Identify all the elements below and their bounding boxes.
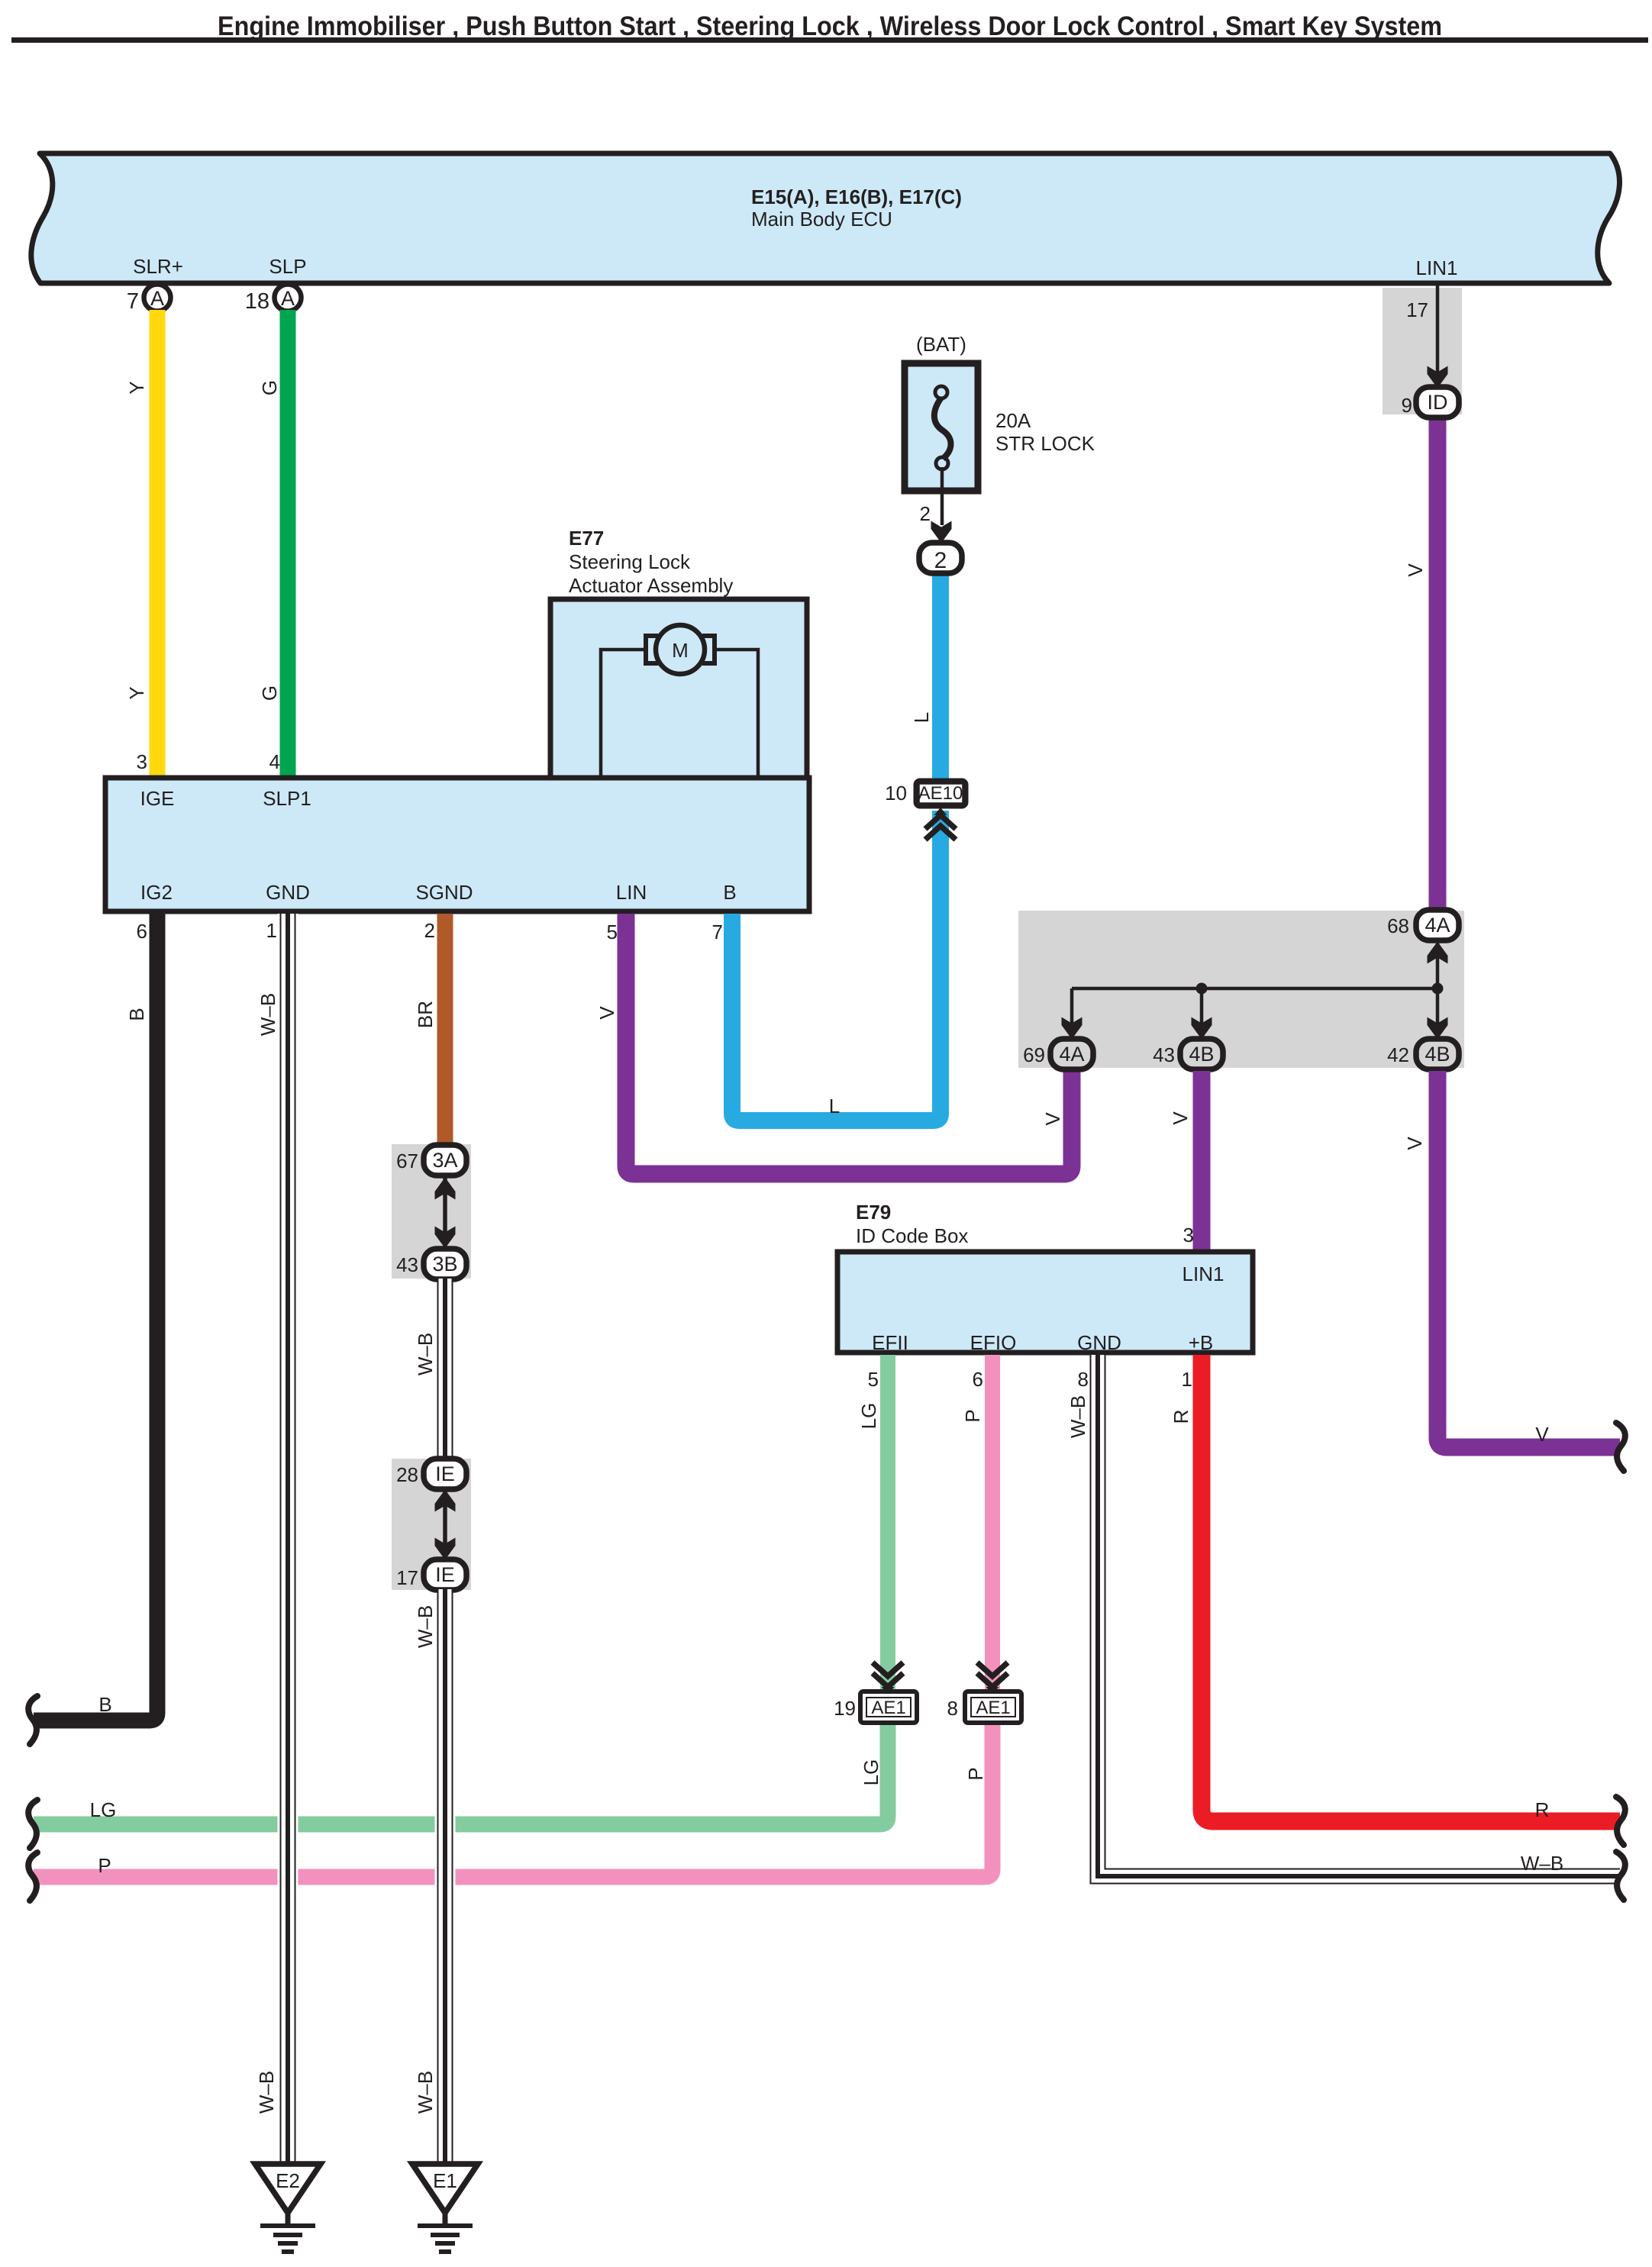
svg-text:P: P bbox=[98, 1854, 111, 1877]
svg-text:4B: 4B bbox=[1425, 1043, 1450, 1066]
ground E2 bbox=[255, 2164, 321, 2252]
svg-text:R: R bbox=[1535, 1798, 1550, 1821]
svg-text:GND: GND bbox=[266, 881, 310, 904]
svg-text:A: A bbox=[150, 287, 164, 310]
svg-text:LG: LG bbox=[857, 1403, 880, 1430]
svg-text:3A: 3A bbox=[432, 1149, 457, 1172]
svg-text:2: 2 bbox=[934, 548, 947, 573]
svg-text:4A: 4A bbox=[1059, 1043, 1084, 1066]
svg-text:Steering Lock: Steering Lock bbox=[569, 550, 691, 573]
svg-text:6: 6 bbox=[973, 1368, 983, 1391]
svg-text:L: L bbox=[910, 712, 933, 723]
svg-text:E79: E79 bbox=[856, 1201, 891, 1224]
svg-text:LIN1: LIN1 bbox=[1183, 1262, 1224, 1285]
svg-text:G: G bbox=[258, 685, 281, 701]
svg-text:42: 42 bbox=[1387, 1043, 1409, 1066]
title rule bbox=[11, 37, 1648, 43]
svg-text:18: 18 bbox=[245, 289, 269, 314]
svg-text:4: 4 bbox=[269, 750, 280, 773]
connector 3A/3B pair bbox=[443, 1160, 447, 1264]
svg-text:IG2: IG2 bbox=[140, 881, 173, 904]
connector AE1 (19) bbox=[873, 1662, 903, 1695]
svg-text:L: L bbox=[829, 1095, 840, 1117]
wire Y (SLR+ to IGE) bbox=[150, 310, 166, 776]
wire P horizontal (lower) bbox=[34, 1723, 992, 1877]
pin circle A (7) bbox=[144, 285, 171, 311]
svg-text:LG: LG bbox=[90, 1798, 117, 1821]
svg-text:LIN1: LIN1 bbox=[1416, 256, 1458, 279]
svg-text:IE: IE bbox=[435, 1563, 455, 1586]
svg-text:ID Code Box: ID Code Box bbox=[856, 1224, 968, 1247]
svg-text:7: 7 bbox=[712, 921, 723, 943]
svg-text:8: 8 bbox=[1078, 1368, 1089, 1391]
svg-text:9: 9 bbox=[1402, 394, 1412, 417]
svg-text:E1: E1 bbox=[433, 2169, 457, 2192]
svg-text:B: B bbox=[723, 881, 736, 904]
wire junction bus horizontal bbox=[1072, 987, 1437, 991]
svg-text:STR LOCK: STR LOCK bbox=[995, 432, 1095, 455]
AE10 double chevron arrows bbox=[925, 808, 956, 840]
svg-text:Y: Y bbox=[125, 381, 148, 394]
svg-text:W–B: W–B bbox=[255, 2071, 278, 2114]
svg-text:AE1: AE1 bbox=[976, 1698, 1010, 1718]
oval 68 4A bbox=[1416, 910, 1459, 940]
svg-text:2: 2 bbox=[920, 502, 931, 525]
wire B (IG2 down left to edge) bbox=[34, 914, 157, 1720]
svg-text:+B: +B bbox=[1189, 1331, 1214, 1354]
wire W-B (17 IE to E1 ground) bbox=[435, 1589, 456, 2166]
svg-text:V: V bbox=[1169, 1111, 1192, 1125]
junction dot (43 branch) bbox=[1196, 983, 1208, 995]
oval 43 4B bbox=[1180, 1039, 1223, 1069]
svg-text:SLP1: SLP1 bbox=[263, 787, 311, 810]
svg-text:4A: 4A bbox=[1425, 914, 1450, 937]
wire R (+B down right to edge) bbox=[1202, 1355, 1620, 1821]
svg-text:7: 7 bbox=[127, 289, 139, 314]
svg-text:10: 10 bbox=[885, 782, 907, 805]
svg-text:28: 28 bbox=[396, 1463, 418, 1486]
svg-text:V: V bbox=[1041, 1112, 1064, 1126]
svg-text:BR: BR bbox=[414, 1001, 437, 1028]
svg-text:W–B: W–B bbox=[1066, 1395, 1089, 1438]
wire W-B (3B to 28 IE) bbox=[437, 1279, 453, 1460]
svg-text:IGE: IGE bbox=[140, 787, 175, 810]
svg-text:E15(A), E16(B), E17(C): E15(A), E16(B), E17(C) bbox=[751, 185, 962, 208]
svg-text:LIN: LIN bbox=[616, 881, 647, 904]
E77 upper box (Steering Lock Actuator Assembly) bbox=[550, 599, 807, 778]
svg-text:E77: E77 bbox=[569, 527, 604, 550]
svg-text:E2: E2 bbox=[276, 2169, 300, 2192]
svg-text:5: 5 bbox=[868, 1368, 879, 1391]
svg-text:4B: 4B bbox=[1189, 1043, 1214, 1066]
wire W-B from E79 GND to right edge bbox=[1098, 1355, 1620, 1876]
wire segment 68 4A to junction with arrow up bbox=[1436, 939, 1440, 988]
gray highlight box IE/IE bbox=[392, 1459, 471, 1590]
svg-text:P: P bbox=[964, 1767, 987, 1780]
connector AE10 bbox=[916, 781, 966, 806]
svg-text:20A: 20A bbox=[995, 409, 1031, 432]
svg-text:G: G bbox=[258, 380, 281, 395]
svg-text:ID: ID bbox=[1428, 391, 1448, 414]
svg-text:8: 8 bbox=[947, 1697, 958, 1720]
connector IE/IE pair bbox=[443, 1474, 447, 1575]
svg-text:V: V bbox=[1403, 1137, 1426, 1150]
svg-text:3B: 3B bbox=[432, 1253, 457, 1275]
wire L (fuse side) bbox=[932, 572, 949, 779]
svg-text:Actuator Assembly: Actuator Assembly bbox=[569, 574, 733, 597]
svg-text:W–B: W–B bbox=[414, 2071, 437, 2114]
svg-text:43: 43 bbox=[396, 1253, 418, 1276]
svg-text:W–B: W–B bbox=[257, 993, 279, 1036]
svg-text:17: 17 bbox=[1406, 298, 1428, 321]
motor M bbox=[656, 625, 705, 674]
svg-text:SLP: SLP bbox=[269, 255, 306, 278]
svg-text:IE: IE bbox=[435, 1462, 455, 1485]
wire G (SLP to SLP1) bbox=[280, 310, 296, 776]
ground E1 bbox=[412, 2164, 478, 2252]
svg-text:W–B: W–B bbox=[414, 1333, 437, 1375]
wire from fuse to connector 2 bbox=[941, 467, 944, 525]
svg-text:Engine Immobiliser , Push Butt: Engine Immobiliser , Push Button Start ,… bbox=[218, 11, 1442, 41]
wire V (43-4B down to E79 LIN1) bbox=[1193, 1071, 1211, 1252]
svg-text:B: B bbox=[98, 1693, 111, 1716]
svg-text:P: P bbox=[961, 1409, 984, 1422]
E79 ID Code Box bbox=[837, 1252, 1253, 1353]
svg-text:1: 1 bbox=[1182, 1368, 1192, 1391]
svg-text:67: 67 bbox=[396, 1150, 418, 1172]
wire V (42-4B down right to edge) bbox=[1437, 1071, 1620, 1447]
pin circle A (18) bbox=[275, 285, 302, 311]
svg-text:M: M bbox=[672, 639, 689, 662]
svg-text:(BAT): (BAT) bbox=[916, 333, 966, 356]
svg-text:68: 68 bbox=[1387, 914, 1409, 937]
svg-text:AE10: AE10 bbox=[918, 783, 963, 804]
svg-text:43: 43 bbox=[1153, 1043, 1175, 1066]
svg-text:A: A bbox=[281, 287, 295, 310]
svg-text:2: 2 bbox=[424, 919, 435, 942]
svg-text:R: R bbox=[1170, 1410, 1192, 1424]
svg-text:B: B bbox=[125, 1008, 148, 1021]
svg-text:SLR+: SLR+ bbox=[133, 255, 183, 278]
gray highlight box 4A/4B junction bbox=[1018, 911, 1464, 1068]
wire V (LIN to 69-4A) bbox=[626, 914, 1072, 1174]
svg-text:6: 6 bbox=[137, 920, 147, 943]
E77 connector strip bbox=[105, 778, 809, 911]
wire P (EFIO to AE1) bbox=[985, 1355, 1000, 1691]
svg-text:Main Body ECU: Main Body ECU bbox=[751, 208, 892, 231]
svg-text:EFIO: EFIO bbox=[970, 1331, 1017, 1354]
svg-text:5: 5 bbox=[607, 921, 618, 943]
svg-text:EFII: EFII bbox=[872, 1331, 908, 1354]
wire V (ID down to 68-4A) bbox=[1429, 416, 1447, 911]
svg-text:SGND: SGND bbox=[415, 881, 473, 904]
svg-text:GND: GND bbox=[1077, 1331, 1121, 1354]
wire W-B (strip GND to E2 ground) bbox=[278, 914, 298, 2166]
svg-text:3: 3 bbox=[1183, 1224, 1194, 1246]
svg-text:3: 3 bbox=[137, 750, 147, 773]
ECU E15/E16/E17 Main Body ECU box bbox=[31, 153, 1620, 283]
svg-text:V: V bbox=[1404, 563, 1427, 577]
svg-text:V: V bbox=[1535, 1423, 1549, 1446]
wire segment down to 43 4B bbox=[1200, 988, 1204, 1040]
wire segment down to 69 4A bbox=[1070, 988, 1074, 1040]
svg-text:1: 1 bbox=[266, 919, 277, 942]
motor wire left bbox=[601, 650, 646, 776]
gray highlight box pin17/ID bbox=[1383, 288, 1462, 414]
wire LG horizontal (lower) bbox=[34, 1723, 888, 1824]
svg-text:17: 17 bbox=[396, 1566, 418, 1589]
junction dot (42/68 branch) bbox=[1432, 983, 1444, 995]
svg-text:LG: LG bbox=[860, 1759, 882, 1786]
svg-text:19: 19 bbox=[834, 1697, 856, 1720]
oval connector 2 bbox=[919, 543, 962, 573]
svg-text:W–B: W–B bbox=[414, 1605, 437, 1648]
wire L (lower run to B pin) bbox=[732, 811, 941, 1121]
svg-text:Y: Y bbox=[125, 686, 148, 699]
svg-text:V: V bbox=[595, 1006, 618, 1020]
svg-text:69: 69 bbox=[1023, 1043, 1045, 1066]
wire BR (SGND to 3A) bbox=[437, 914, 453, 1146]
oval 42 4B bbox=[1416, 1039, 1459, 1069]
motor wire right bbox=[713, 650, 758, 776]
gray highlight box 3A/3B bbox=[392, 1144, 471, 1279]
svg-text:AE1: AE1 bbox=[871, 1698, 905, 1718]
svg-text:W–B: W–B bbox=[1521, 1852, 1563, 1875]
oval 69 4A bbox=[1050, 1039, 1093, 1069]
wire LG (EFII to AE1) bbox=[880, 1355, 895, 1691]
wire segment down to 42 4B bbox=[1436, 988, 1440, 1040]
connector AE1 (8) bbox=[977, 1662, 1008, 1695]
